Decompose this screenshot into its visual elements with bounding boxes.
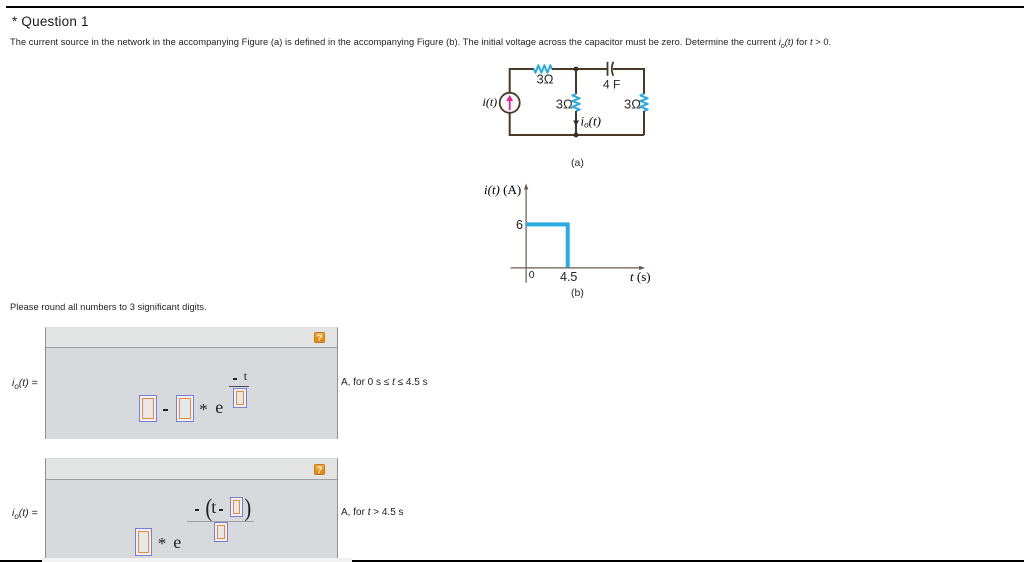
current source arrow <box>509 100 511 110</box>
help button 1 <box>314 332 325 343</box>
svg-text:t (s): t (s) <box>630 269 651 284</box>
current source U1 circle <box>500 93 520 113</box>
wire middle branch upper <box>575 69 577 94</box>
svg-text:(a): (a) <box>571 157 584 169</box>
letter e <box>173 532 181 553</box>
resistor R2 3ohm vertical middle <box>572 94 579 111</box>
svg-text:i(t) (A): i(t) (A) <box>484 182 521 197</box>
numerator minus 2 <box>219 509 224 511</box>
numerator t <box>211 497 216 518</box>
svg-text:4.5: 4.5 <box>560 270 577 284</box>
answer box 1 <box>45 327 338 439</box>
label io(t)= 1 <box>12 377 38 391</box>
resistor R1 3ohm horizontal <box>534 65 552 73</box>
input a3 <box>233 388 247 408</box>
bottom wire <box>510 113 644 135</box>
instruction line <box>10 302 207 312</box>
svg-text:3Ω: 3Ω <box>624 97 641 112</box>
node B junction dot bottom <box>574 133 579 138</box>
title <box>12 14 89 29</box>
input a2 <box>176 395 194 422</box>
step waveform <box>526 224 568 267</box>
wire right lower <box>643 111 645 135</box>
svg-text:4 F: 4 F <box>603 78 620 92</box>
svg-text:(b): (b) <box>571 287 584 299</box>
top rule <box>6 6 1024 8</box>
y axis <box>525 187 527 283</box>
wire top-middle <box>552 68 608 70</box>
problem paragraph <box>10 37 831 50</box>
close paren <box>244 492 251 523</box>
input a1 <box>139 395 157 422</box>
bottom rule <box>0 560 1024 562</box>
svg-text:i(t): i(t) <box>483 95 498 109</box>
numerator minus 1 <box>195 509 200 511</box>
capacitor C1 plates <box>607 62 609 76</box>
help button 2 <box>314 464 325 475</box>
wire top-right <box>613 69 644 94</box>
fraction bar 2 <box>187 521 254 522</box>
svg-text:3Ω: 3Ω <box>537 72 554 87</box>
asterisk <box>199 400 208 420</box>
answer box 2 <box>45 458 338 559</box>
exponent minus <box>233 378 237 380</box>
unit label 2 <box>341 507 404 518</box>
letter e <box>215 397 223 418</box>
exponent t <box>244 369 247 384</box>
wire top-left <box>510 69 534 93</box>
unit label 1 <box>341 377 428 388</box>
svg-text:io(t): io(t) <box>581 114 601 130</box>
resistor R3 3ohm vertical right <box>640 94 647 111</box>
open paren <box>205 492 212 523</box>
label io(t)= 2 <box>12 507 38 521</box>
svg-text:6: 6 <box>516 218 523 232</box>
minus sign <box>163 409 168 411</box>
input b1 <box>135 528 152 556</box>
circuit figure (a) <box>470 55 680 170</box>
fraction bar 1 <box>229 386 249 387</box>
io(t) current arrow <box>574 115 578 125</box>
graph figure (b) <box>470 175 680 303</box>
input b2 <box>230 497 243 517</box>
wire middle branch lower <box>575 111 577 135</box>
x axis <box>511 267 642 269</box>
asterisk <box>158 534 167 554</box>
input b3 denominator <box>214 522 228 542</box>
svg-text:0: 0 <box>529 269 535 281</box>
node A junction dot top <box>574 67 579 72</box>
svg-text:3Ω: 3Ω <box>556 97 573 112</box>
